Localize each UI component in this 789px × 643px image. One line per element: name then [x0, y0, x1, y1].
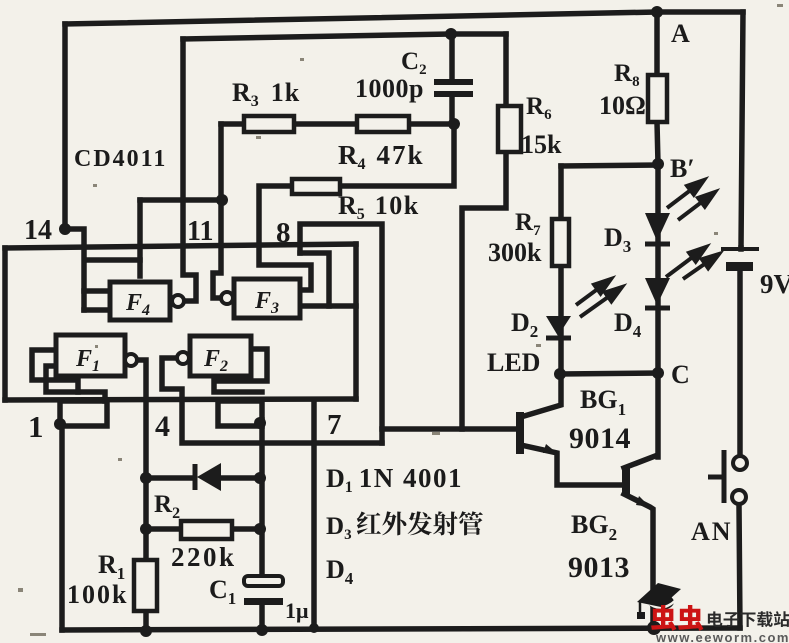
wire R8 to node B	[657, 122, 658, 164]
gate F2 bubble	[177, 352, 189, 364]
wire R3 left vertical down to F3 output	[213, 124, 221, 298]
svg-text:9013: 9013	[568, 551, 630, 584]
resistor R4 47k body	[357, 116, 409, 132]
wire pin1 vertical	[59, 424, 65, 630]
resistor R6 15k body	[498, 106, 521, 152]
emission arrows D2	[576, 279, 622, 317]
wire BG1 base row	[382, 426, 516, 432]
wire left vertical from top rail to pin 14	[62, 24, 68, 229]
svg-text:www.eeworm.com: www.eeworm.com	[655, 630, 789, 643]
svg-text:14: 14	[24, 215, 52, 246]
wire R2 right	[232, 526, 262, 532]
svg-text:A: A	[671, 19, 690, 48]
wire node C link	[560, 373, 658, 374]
svg-text:15k: 15k	[521, 130, 562, 159]
svg-text:1: 1	[28, 409, 44, 444]
resistor R1 100k body	[134, 560, 157, 611]
wire R3-R4 row	[221, 121, 244, 127]
node box below row F2	[218, 401, 262, 426]
wire F1 input hook B	[46, 366, 105, 401]
resistor R3 1k body	[244, 116, 294, 132]
svg-text:220k: 220k	[171, 542, 237, 572]
diode D2 LED	[546, 316, 571, 338]
wire F4 input stub lower	[84, 307, 110, 313]
svg-text:1μ: 1μ	[285, 598, 309, 623]
svg-text:1000p: 1000p	[355, 74, 424, 103]
gate F3 bubble	[221, 292, 233, 304]
wire IC right joining vertical	[353, 244, 359, 399]
wire F2 output down to NAND row	[162, 358, 382, 443]
watermark graduation cap	[637, 583, 681, 619]
wire F3 input hook A	[300, 253, 329, 306]
wire switch to bottom rail	[739, 505, 740, 628]
svg-text:100k: 100k	[67, 580, 128, 609]
svg-text:R447k: R447k	[338, 140, 425, 173]
resistor R7 300k body	[552, 219, 569, 266]
wire F1 output vertical (pin 4 node)	[137, 360, 146, 631]
emission arrows D4	[666, 247, 719, 279]
label note D3 chinese 红外发射管	[357, 511, 483, 535]
wire y200 link	[140, 197, 221, 203]
node box below row pin1	[60, 401, 107, 426]
svg-text:8: 8	[276, 217, 291, 249]
transistor BG1 base bar	[516, 412, 524, 454]
wire C2 branch lower	[449, 96, 455, 124]
svg-text:9014: 9014	[569, 422, 631, 455]
diode D1 1N4001	[195, 463, 221, 491]
wire R6 bottom jog	[462, 152, 506, 429]
svg-text:LED: LED	[487, 348, 540, 377]
svg-text:C: C	[671, 360, 690, 389]
wire BG1 collector	[521, 374, 561, 417]
wire R5 right to C2 node vertical	[340, 124, 454, 186]
gate F2 box	[190, 336, 251, 376]
gate F1 box	[56, 335, 125, 376]
wire pin14 jog to IC row	[65, 229, 84, 310]
wire second top rail	[183, 34, 506, 39]
svg-text:AN: AN	[691, 517, 733, 546]
resistor R8 10ohm body	[648, 75, 667, 122]
wire hook from R3 node down-left to F4 trunk	[137, 200, 143, 276]
pushbutton AN	[708, 450, 747, 504]
wire R4 right to C2 node	[409, 121, 454, 127]
wire D1-R2-C1 node vertical	[259, 420, 265, 576]
transistor BG2 base bar	[622, 466, 630, 496]
gate F4 box	[110, 282, 170, 320]
wire R2 left	[146, 526, 181, 532]
wire F1 input hook A	[32, 350, 78, 392]
svg-text:11: 11	[187, 216, 213, 247]
svg-text:300k: 300k	[488, 238, 542, 267]
diode D3 infrared	[645, 213, 670, 244]
wire right edge down to battery	[741, 12, 743, 248]
transistor BG1 emitter arrow	[543, 444, 557, 453]
wire R7 D2 chain vertical	[558, 166, 564, 374]
wire D1 right	[221, 475, 262, 481]
wire IC row upper	[5, 244, 356, 248]
wire battery to switch	[737, 271, 743, 455]
emission arrows D3	[667, 180, 715, 220]
svg-text:9V: 9V	[760, 269, 789, 299]
wire vertical pin11 output to second rail	[183, 39, 196, 301]
wire IC left edge	[2, 248, 8, 400]
wire R6 top vertical	[503, 34, 509, 106]
wire D1 left	[146, 475, 193, 481]
svg-text:4: 4	[155, 410, 170, 443]
wire BG2 emitter down	[624, 494, 653, 628]
svg-text:B′: B′	[670, 154, 695, 183]
wire F3 input bottom link	[300, 303, 356, 309]
wire C2 branch upper	[449, 34, 455, 80]
wire pin7 vertical	[311, 401, 317, 628]
resistor R2 220k body	[181, 521, 232, 539]
wire IC row lower	[5, 399, 356, 400]
diode D4 infrared	[645, 278, 670, 308]
svg-text:CD4011: CD4011	[74, 146, 167, 172]
wire node B link	[561, 165, 658, 166]
wire between R3 and R4	[294, 121, 357, 127]
capacitor C2 plates	[434, 79, 473, 97]
wire R8 branch vertical	[654, 12, 660, 75]
svg-text:10Ω: 10Ω	[599, 91, 646, 120]
gate F1 bubble	[125, 354, 137, 366]
wire top rail	[65, 12, 743, 24]
wire R5 left drop to F3 input	[259, 186, 311, 290]
watermark logo 虫虫 red	[651, 605, 703, 631]
watermark text 电子下载站	[708, 611, 789, 627]
svg-text:7: 7	[327, 409, 342, 441]
transistor BG2 emitter arrow	[636, 496, 650, 507]
wire F4 input stub upper	[84, 288, 110, 294]
battery 9V plates	[721, 247, 759, 251]
wire BG1 emitter to BG2 base	[521, 445, 622, 485]
wire pin8 stub	[300, 224, 382, 443]
gate F3 box	[234, 279, 300, 318]
wire F2 input hook A	[214, 349, 267, 392]
gate F4 bubble	[172, 295, 184, 307]
wire battery top	[738, 248, 744, 249]
wire D3-D4 chain vertical	[655, 164, 661, 457]
wire bottom rail	[62, 628, 740, 630]
resistor R5 10k body	[292, 179, 340, 194]
wire C1 bottom stub	[259, 605, 265, 630]
svg-text:R510k: R510k	[338, 191, 420, 223]
capacitor C1 plates	[244, 576, 283, 586]
wire BG2 collector slant	[624, 456, 655, 468]
